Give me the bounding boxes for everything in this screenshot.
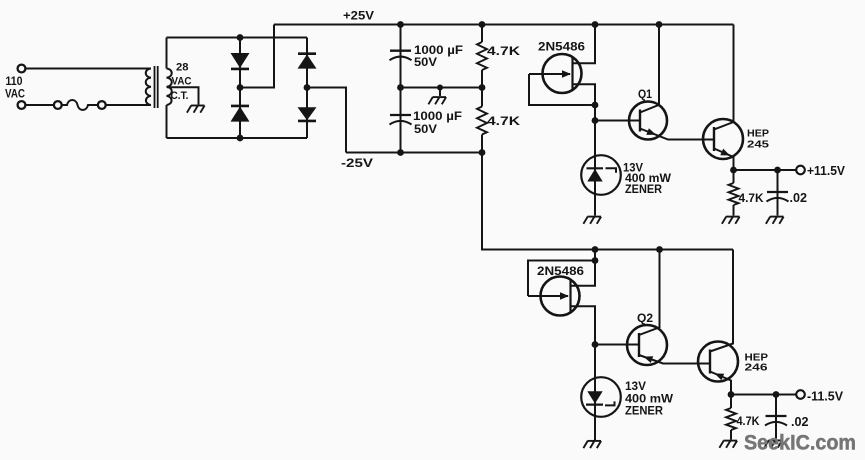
ground: capacitor midpoint — [428, 97, 446, 104]
wire: U3 source lead — [571, 261, 596, 286]
ground: zener ZD1 — [583, 217, 601, 224]
transistor Q1 NPN — [629, 25, 714, 140]
svg-text:1000 µF: 1000 µF — [414, 45, 463, 57]
svg-text:2N5486: 2N5486 — [538, 41, 585, 53]
node: output cap junction lower — [773, 391, 780, 398]
svg-text:+25V: +25V — [343, 11, 374, 23]
svg-text:HEP: HEP — [747, 127, 769, 139]
svg-text:+11.5V: +11.5V — [807, 164, 846, 178]
wire: U1 gate loop — [529, 74, 595, 105]
node: C2 bottom junction — [397, 149, 404, 156]
resistor R2 4.7K — [477, 107, 487, 135]
ground: C3 — [766, 217, 784, 224]
svg-text:4.7K: 4.7K — [487, 114, 520, 128]
wire: Q2 base — [595, 344, 639, 346]
wire: divider column top — [481, 25, 483, 43]
ground: zener ZD2 — [583, 441, 601, 448]
terminal: +11.5V output — [796, 166, 805, 175]
svg-text:Q2: Q2 — [637, 313, 653, 325]
diode ZD2 13V zener — [581, 377, 621, 417]
node: 110 VAC label — [5, 74, 25, 101]
svg-text:Q1: Q1 — [638, 89, 653, 101]
svg-text:50V: 50V — [414, 124, 437, 136]
wire: bridge left column — [239, 38, 241, 139]
node: bridge AC top junction — [237, 34, 244, 41]
svg-text:-25V: -25V — [341, 158, 373, 170]
svg-text:13V: 13V — [625, 381, 646, 393]
wire: Q2 base node to zener ZD2 — [594, 345, 596, 441]
svg-text:245: 245 — [747, 139, 769, 151]
transistor U1 JFET 2N5486 top — [529, 54, 582, 93]
transistor Q2 PNP — [627, 250, 710, 366]
wire: secondary bottom to bridge — [167, 137, 308, 139]
svg-text:1000 µF: 1000 µF — [413, 111, 462, 123]
transformer T1 primary winding — [146, 69, 151, 105]
svg-text:50V: 50V — [414, 57, 437, 69]
svg-text:4.7K: 4.7K — [739, 193, 765, 205]
node: HEP245 emitter junction — [730, 167, 737, 174]
wire: divider column middle — [481, 70, 483, 107]
svg-text:VAC: VAC — [5, 87, 25, 101]
node: bridge +V junction — [237, 84, 244, 91]
diode D3 bridge right top — [298, 54, 317, 69]
node: R1 top junction — [479, 21, 486, 28]
label: 28 VAC C.T. — [171, 62, 192, 102]
diode D2 bridge left bottom — [231, 106, 250, 122]
transistor U3 JFET 2N5486 bottom — [528, 277, 580, 316]
wire: source node to zener — [594, 105, 596, 216]
wire: -25V rail — [346, 152, 482, 154]
capacitor C2 1000uF 50V — [390, 115, 412, 125]
resistor R4 4.7K output load — [726, 395, 736, 440]
diode ZD1 13V zener — [581, 155, 621, 195]
svg-text:ZENER: ZENER — [625, 406, 664, 418]
capacitor C4 .02 — [765, 395, 787, 439]
svg-text:ZENER: ZENER — [625, 184, 663, 196]
svg-text:.02: .02 — [790, 191, 808, 205]
node: bridge AC bottom junction — [237, 135, 244, 142]
label: U4 HEP 246 — [745, 351, 769, 373]
node: lower rail JFET junction — [592, 246, 599, 253]
wire: secondary bottom lead — [166, 105, 168, 138]
wire: divider column bottom — [481, 135, 483, 153]
capacitor C1 1000uF 50V — [390, 51, 412, 61]
label: C1 value — [414, 45, 463, 69]
capacitor C3 .02 — [767, 170, 789, 216]
wire: secondary top lead — [166, 38, 168, 69]
wire: fuse to transformer primary — [105, 104, 151, 106]
terminal: AC input top — [18, 65, 26, 73]
node: Q2 base junction — [592, 341, 599, 348]
wire: AC input top to transformer primary — [25, 68, 151, 70]
wire: U3 gate loop — [528, 261, 595, 297]
node: U1 drain rail junction — [592, 21, 599, 28]
svg-text:.02: .02 — [791, 415, 809, 429]
wire: +25V rail — [274, 24, 734, 26]
ground: C4 — [764, 440, 782, 447]
transformer T1 secondary winding — [167, 69, 172, 105]
wire: -25V feed to lower section — [482, 153, 733, 250]
fuse F1 — [54, 100, 106, 110]
wire: AC input bottom to fuse — [26, 104, 54, 106]
node: R2 bottom junction — [479, 149, 486, 156]
svg-text:VAC: VAC — [172, 75, 192, 87]
wire: Q1 base — [595, 120, 640, 122]
transistor U2 HEP 245 — [703, 25, 743, 171]
svg-text:246: 246 — [745, 362, 768, 374]
node: cap mid junction left — [397, 84, 404, 91]
node: Q1 base junction — [592, 117, 599, 124]
node: C1 top junction — [397, 21, 404, 28]
node: Q1 collector rail junction — [656, 21, 663, 28]
resistor R3 4.7K output load — [729, 170, 739, 216]
label: ZD1 value — [623, 162, 671, 196]
node: U1 source gate junction — [592, 102, 599, 109]
node: cap mid junction right — [479, 84, 486, 91]
transformer T1 core — [155, 66, 158, 108]
svg-text:28: 28 — [176, 62, 189, 74]
resistor R1 4.7K — [477, 42, 487, 70]
ground: R3 — [722, 217, 740, 224]
node: bridge -V junction — [304, 84, 311, 91]
label: ZD2 value — [625, 381, 673, 417]
node: U3 source gate junction — [592, 257, 599, 264]
wire: center tap to ground — [167, 87, 199, 104]
svg-text:C.T.: C.T. — [171, 90, 189, 102]
node: cap mid ground tap — [437, 85, 443, 91]
wire: capacitor midpoint line — [401, 87, 483, 89]
wire: U1 source lead — [573, 84, 596, 105]
wire: secondary top to bridge — [167, 37, 308, 39]
svg-text:SeekIC.com: SeekIC.com — [744, 430, 856, 454]
transistor U4 HEP 246 — [698, 250, 738, 395]
wire: U3 node to rail — [594, 250, 596, 261]
diode D1 bridge left top — [231, 53, 250, 69]
wire: bridge -V to -25V rail — [307, 88, 346, 153]
ground: center tap — [187, 106, 205, 113]
svg-text:4.7K: 4.7K — [487, 44, 520, 58]
wire: bridge +V to +25V rail — [240, 25, 274, 88]
node: HEP246 emitter junction — [728, 391, 735, 398]
svg-text:4.7K: 4.7K — [737, 416, 761, 428]
wire: U1 drain to +25V rail — [573, 25, 596, 64]
wire: bridge right column — [306, 38, 308, 139]
svg-text:2N5486: 2N5486 — [537, 266, 584, 278]
node: lower rail Q2 collector junction — [656, 246, 663, 253]
diode D4 bridge right bottom — [298, 107, 317, 121]
label: U2 HEP 245 — [747, 127, 769, 150]
wire: U3 drain lead — [571, 306, 596, 344]
ground: R4 — [719, 441, 737, 448]
wire: +11.5V output line — [734, 169, 797, 171]
label: C2 value — [413, 111, 462, 136]
wire: filter capacitor column — [400, 25, 402, 153]
terminal: -11.5V output — [796, 390, 805, 399]
svg-text:-11.5V: -11.5V — [807, 389, 844, 403]
wire: mid ground stub — [439, 88, 441, 97]
wire: -11.5V output line — [731, 394, 797, 396]
svg-text:400 mW: 400 mW — [625, 393, 673, 405]
terminal: AC input bottom — [18, 101, 26, 109]
node: output cap junction — [774, 167, 781, 174]
